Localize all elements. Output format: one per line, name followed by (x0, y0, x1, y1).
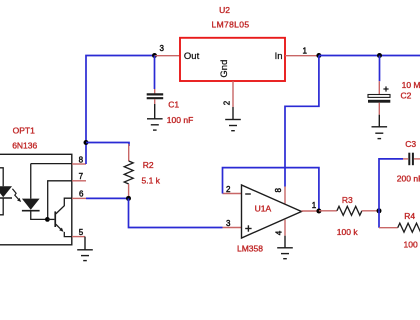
wire C2 bottom (378, 103, 380, 127)
wire U2 In pin stub (285, 55, 319, 57)
resistor R3 (319, 206, 379, 215)
pin number 7 (OPT1) (79, 172, 84, 181)
wire OPT1 pin 5 stub (72, 236, 85, 238)
svg-text:Gnd: Gnd (219, 60, 230, 78)
wire op-amp pin 3 stub (223, 227, 242, 229)
node junction at OPT1 pin6 / R2 (126, 196, 131, 201)
svg-text:3: 3 (160, 44, 165, 53)
wire OPT1 pin 7 stub (72, 180, 86, 182)
resistor R2 (124, 144, 133, 198)
svg-text:In: In (275, 51, 283, 62)
wire feedback loop (223, 168, 319, 211)
R3 reference label (342, 195, 353, 205)
svg-text:OPT1: OPT1 (13, 126, 35, 136)
ground below OPT1 pin 5 (77, 237, 93, 261)
transistor inside OPT1 (47, 198, 72, 236)
svg-text:6N136: 6N136 (12, 141, 37, 151)
svg-text:R4: R4 (404, 211, 415, 221)
capacitor C3 (409, 153, 413, 166)
C1 reference label (168, 100, 179, 110)
ground below U2 (225, 107, 241, 131)
pin number 8 (U1A, rotated) (274, 188, 283, 193)
pin number 1 (U2 In) (303, 47, 308, 56)
wire OPT1 pin 8 stub (72, 163, 86, 165)
op-amp U1A (242, 185, 302, 238)
svg-text:2: 2 (226, 185, 231, 194)
wire op-amp pin 2 stub (223, 193, 242, 195)
svg-text:7: 7 (79, 172, 84, 181)
node junction at C2 tap (377, 53, 382, 58)
svg-text:5: 5 (79, 228, 84, 237)
node junction above OPT1 pin 8 (84, 140, 89, 145)
pin number 5 (OPT1) (79, 228, 84, 237)
svg-text:2: 2 (223, 100, 232, 105)
wire regulator Out pin stub (155, 55, 181, 57)
R2 reference label (143, 160, 154, 170)
svg-text:100 k: 100 k (337, 227, 359, 237)
C3 value label 200 nF (397, 173, 420, 183)
optocoupler OPT1 box (0, 154, 72, 245)
R3 value label 100 k (337, 227, 359, 237)
pin number 1 (U1A out) (312, 201, 317, 210)
U2 pin name Out (184, 51, 200, 62)
R4 value label 100 k (404, 239, 420, 249)
wire C3 left stub (403, 158, 408, 160)
U2 value label LM78L05 (212, 19, 250, 29)
voltage regulator U2 (180, 38, 285, 81)
node junction at transistor base (45, 217, 50, 222)
pin number 8 (OPT1) (79, 155, 84, 164)
U1A plus sign (245, 225, 251, 231)
R4 reference label (404, 211, 415, 221)
U2 reference label (219, 5, 230, 15)
wire U2 In node to op-amp pin 8 (285, 56, 319, 187)
ground below op-amp pin 4 (277, 236, 293, 259)
svg-text:1: 1 (303, 47, 308, 56)
svg-text:C3: C3 (405, 139, 416, 149)
svg-text:1: 1 (312, 201, 317, 210)
wire C3 right stub (414, 158, 420, 160)
capacitor C1 (147, 94, 164, 98)
diode LED inside OPT1 (0, 168, 12, 215)
ground below C1 (147, 119, 163, 130)
wire op-amp output pin 1 stub (302, 210, 319, 212)
svg-text:100 nF: 100 nF (167, 115, 193, 125)
node junction R3/R4/C3 (377, 208, 382, 213)
C1 value label 100 nF (167, 115, 193, 125)
wire 5V rail right segment (319, 55, 420, 57)
wire OPT1 pin 6 to node (86, 197, 129, 199)
svg-text:Out: Out (184, 51, 200, 62)
wire pin 8 to 5V node (85, 143, 87, 165)
svg-text:3: 3 (226, 219, 231, 228)
wire C1 top (154, 56, 156, 94)
C3 reference label (405, 139, 416, 149)
C2 plus sign (383, 86, 388, 91)
svg-text:C1: C1 (168, 100, 179, 110)
pin number 2 (U2 Gnd, rotated) (223, 100, 232, 105)
svg-text:R3: R3 (342, 195, 353, 205)
R2 value label 5.1 k (142, 176, 161, 186)
wire OPT1 pin 6 stub (72, 197, 86, 199)
U1A minus sign (245, 193, 251, 195)
svg-text:200 nF: 200 nF (397, 173, 420, 183)
svg-text:R2: R2 (143, 160, 154, 170)
svg-text:5.1 k: 5.1 k (142, 176, 161, 186)
pin number 3 (U2 Out) (160, 44, 165, 53)
photon arrow inside OPT1 (12, 189, 21, 202)
wire node up to C3 (379, 159, 403, 211)
C2 value label 10 MF (402, 80, 420, 90)
wire 5V rail left segment (86, 56, 155, 143)
C2 reference label (401, 91, 412, 101)
wire OPT1 pin 7 internal (48, 181, 72, 220)
svg-text:C2: C2 (401, 91, 412, 101)
svg-text:4: 4 (274, 230, 283, 235)
svg-text:8: 8 (274, 188, 283, 193)
wire C1 bottom (154, 99, 156, 118)
wire C2 top (378, 56, 380, 95)
U2 pin name Gnd (rotated) (219, 60, 230, 78)
svg-text:8: 8 (79, 155, 84, 164)
node junction at U2 In (316, 53, 321, 58)
svg-text:6: 6 (79, 190, 84, 199)
node junction at C1 tap (152, 53, 157, 58)
capacitor C2 (polarized) (368, 95, 390, 103)
wire U2 Gnd pin stub (232, 81, 234, 107)
U1A value label LM358 (237, 244, 263, 254)
svg-text:10 MF: 10 MF (402, 80, 420, 90)
svg-text:LM78L05: LM78L05 (212, 19, 250, 29)
svg-text:U1A: U1A (255, 204, 272, 214)
svg-text:U2: U2 (219, 5, 230, 15)
pin number 4 (U1A, rotated) (274, 230, 283, 235)
pin number 2 (U1A -) (226, 185, 231, 194)
wire op-amp pin 4 stub (284, 220, 286, 236)
OPT1 reference label (13, 126, 35, 136)
resistor R4 (379, 223, 420, 232)
svg-text:100 k: 100 k (404, 239, 420, 249)
wire node to op-amp pin 3 (129, 198, 223, 227)
node junction at op-amp output (316, 209, 321, 214)
wire op-amp pin 8 stub (284, 187, 286, 204)
wire node down to R4 (378, 211, 380, 228)
OPT1 value label 6N136 (12, 141, 37, 151)
svg-text:LM358: LM358 (237, 244, 263, 254)
pin number 3 (U1A +) (226, 219, 231, 228)
wire OPT1 pin 8 internal (31, 163, 72, 165)
photodiode inside OPT1 (22, 164, 48, 220)
U1A reference label (255, 204, 272, 214)
U2 pin name In (275, 51, 283, 62)
pin number 6 (OPT1) (79, 190, 84, 199)
ground below C2 (372, 127, 388, 139)
wire node to R2 top (86, 143, 129, 147)
